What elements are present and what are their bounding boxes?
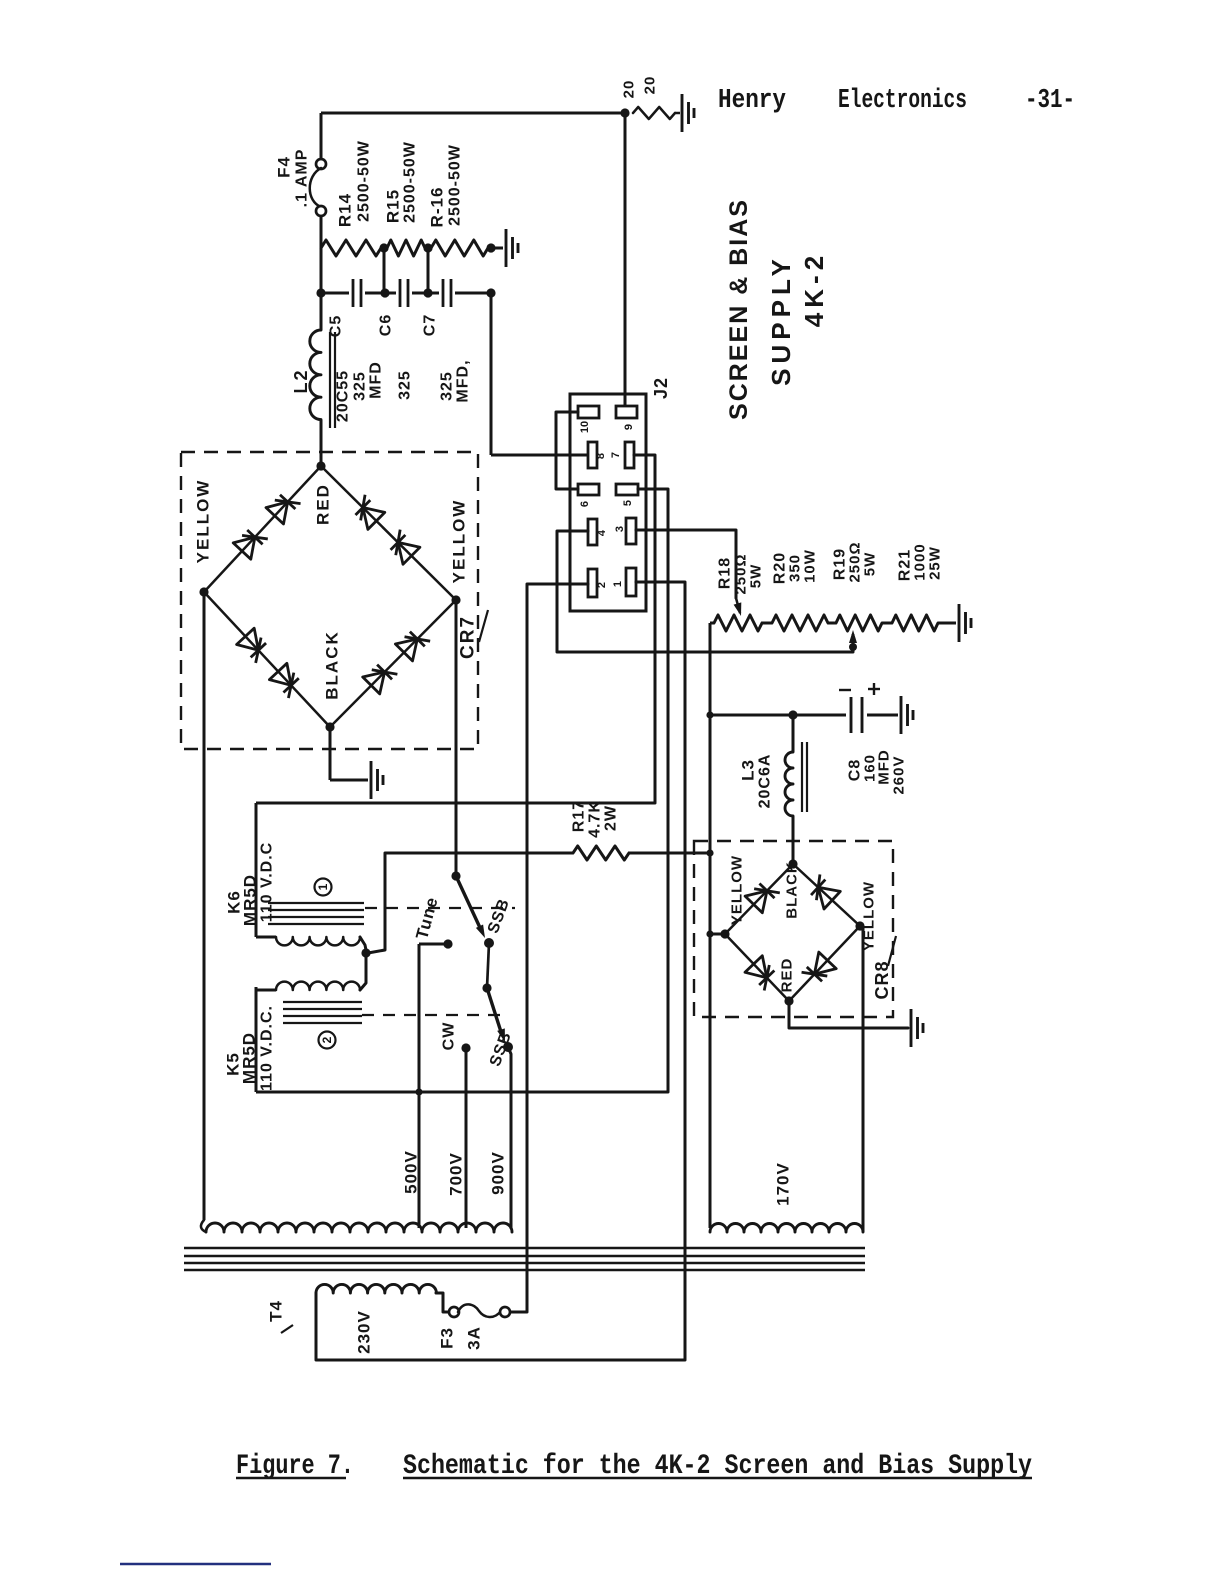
svg-text:6: 6 — [579, 501, 591, 507]
svg-text:MFD: MFD — [368, 361, 385, 399]
svg-text:BLACK: BLACK — [784, 861, 801, 919]
svg-text:BLACK: BLACK — [323, 630, 342, 700]
svg-text:-31-: -31- — [1025, 86, 1075, 116]
svg-text:R18: R18 — [717, 557, 734, 589]
svg-text:.1 AMP: .1 AMP — [294, 149, 311, 208]
svg-text:R17: R17 — [571, 800, 588, 832]
svg-text:2: 2 — [596, 582, 608, 588]
svg-text:MR5D: MR5D — [240, 1032, 259, 1084]
svg-text:F3: F3 — [438, 1327, 457, 1349]
svg-text:Henry: Henry — [718, 86, 786, 116]
svg-text:YELLOW: YELLOW — [450, 499, 469, 584]
svg-text:5W: 5W — [748, 564, 765, 589]
svg-text:10W: 10W — [802, 549, 819, 583]
svg-text:RED: RED — [314, 483, 333, 525]
svg-text:20C55: 20C55 — [335, 370, 352, 422]
svg-text:7: 7 — [610, 452, 622, 458]
svg-text:2500-50W: 2500-50W — [356, 140, 373, 222]
svg-text:MR5D: MR5D — [241, 874, 260, 926]
svg-text:1: 1 — [612, 581, 624, 587]
svg-text:10: 10 — [579, 421, 591, 433]
svg-text:25W: 25W — [927, 546, 944, 580]
svg-text:C7: C7 — [422, 314, 439, 336]
svg-text:325: 325 — [352, 371, 369, 401]
svg-text:5W: 5W — [862, 552, 879, 577]
svg-text:9: 9 — [623, 424, 635, 430]
svg-text:4K-2: 4K-2 — [799, 251, 829, 327]
svg-text:170V: 170V — [774, 1162, 793, 1206]
svg-text:YELLOW: YELLOW — [729, 855, 746, 925]
svg-text:J2: J2 — [651, 377, 671, 399]
svg-text:3A: 3A — [465, 1326, 484, 1350]
svg-text:325: 325 — [439, 371, 456, 401]
svg-text:2500-50W: 2500-50W — [447, 144, 464, 226]
svg-text:1: 1 — [316, 883, 330, 890]
svg-text:3: 3 — [614, 526, 626, 532]
svg-text:5: 5 — [622, 500, 634, 506]
svg-text:R14: R14 — [336, 193, 355, 227]
svg-text:L3: L3 — [739, 759, 758, 781]
svg-text:CW: CW — [441, 1022, 458, 1051]
svg-text:2: 2 — [320, 1036, 334, 1043]
svg-text:500V: 500V — [402, 1150, 421, 1194]
svg-text:CR7: CR7 — [458, 615, 479, 659]
svg-text:CR8: CR8 — [872, 960, 892, 999]
svg-text:110 V.D.C.: 110 V.D.C. — [259, 1005, 276, 1091]
svg-text:SCREEN & BIAS: SCREEN & BIAS — [725, 198, 753, 420]
svg-text:8: 8 — [595, 453, 607, 459]
svg-text:L2: L2 — [291, 368, 311, 393]
svg-text:YELLOW: YELLOW — [861, 881, 878, 951]
svg-text:20: 20 — [621, 80, 638, 99]
svg-text:MFD,: MFD, — [455, 359, 472, 402]
svg-text:20C6A: 20C6A — [757, 754, 774, 809]
svg-text:2W: 2W — [603, 805, 620, 831]
svg-text:230V: 230V — [355, 1310, 374, 1354]
svg-text:700V: 700V — [447, 1152, 466, 1196]
svg-text:RED: RED — [779, 958, 796, 993]
svg-text:T4: T4 — [267, 1300, 286, 1322]
svg-text:4.7K: 4.7K — [587, 800, 604, 838]
svg-text:20: 20 — [642, 76, 659, 95]
svg-text:C6: C6 — [378, 314, 395, 336]
svg-text:110 V.D.C: 110 V.D.C — [259, 842, 276, 922]
svg-text:SUPPLY: SUPPLY — [766, 254, 796, 386]
svg-text:Electronics: Electronics — [838, 86, 967, 116]
svg-text:2500-50W: 2500-50W — [402, 141, 419, 223]
svg-text:R15: R15 — [384, 189, 403, 223]
svg-text:325: 325 — [397, 370, 414, 400]
svg-text:900V: 900V — [489, 1151, 508, 1195]
svg-text:4: 4 — [596, 529, 608, 536]
svg-text:R-16: R-16 — [428, 187, 447, 228]
svg-text:260V: 260V — [891, 755, 908, 794]
svg-text:YELLOW: YELLOW — [194, 479, 213, 564]
svg-text:F4: F4 — [275, 156, 294, 178]
